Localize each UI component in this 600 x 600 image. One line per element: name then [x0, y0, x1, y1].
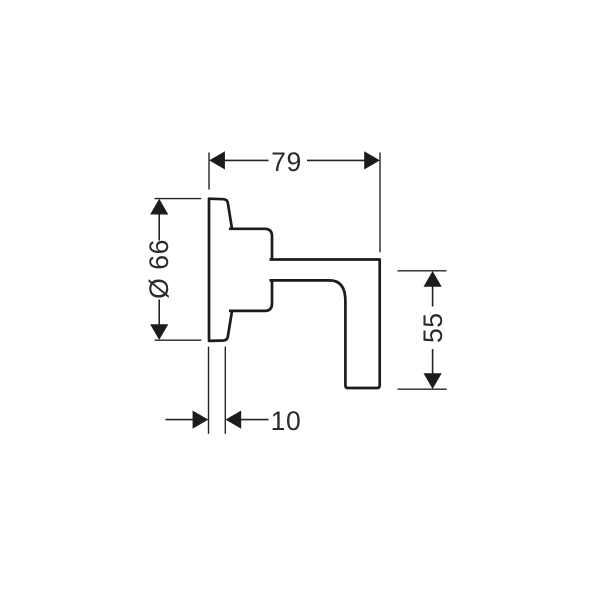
dim 79: dimension line left segment	[222, 159, 269, 161]
dim Ø66: top extension line	[155, 198, 202, 200]
dim 79: left arrowhead	[209, 151, 225, 169]
dim 79: right extension line	[379, 153, 381, 253]
svg-text:Ø 66: Ø 66	[144, 239, 174, 299]
dim 79: dimension line right segment	[307, 159, 366, 161]
dim 10: right tail line	[241, 419, 269, 421]
svg-text:10: 10	[271, 406, 302, 436]
dim 55: top extension line (valve axis)	[398, 270, 447, 272]
valve hub sleeve	[229, 229, 272, 311]
escutcheon plate (side profile)	[209, 199, 232, 341]
dim 10: left tail line	[166, 419, 194, 421]
dim 10: right extension line	[224, 347, 226, 434]
dim 55: dimension line upper segment	[432, 286, 434, 307]
dim Ø66: bottom extension line	[155, 339, 202, 341]
dim Ø66: dimension line lower segment	[158, 300, 160, 327]
dim 10: right arrowhead (pointing left)	[226, 411, 242, 429]
svg-text:79: 79	[271, 147, 302, 177]
dim 10: left extension line	[208, 347, 210, 434]
dim 55: bottom arrowhead	[424, 373, 442, 389]
dim 10: left arrowhead (pointing right)	[193, 411, 209, 429]
dim 55: bottom extension line	[398, 388, 447, 390]
dim Ø66: bottom arrowhead	[150, 324, 168, 340]
dim 79: left extension line	[208, 153, 210, 190]
dim Ø66: dimension line upper segment	[158, 213, 160, 241]
dim Ø66: top arrowhead	[150, 199, 168, 215]
dim 55: dimension line lower segment	[432, 349, 434, 374]
lever handle (L-shape)	[270, 260, 380, 389]
dim 55: top arrowhead	[424, 271, 442, 287]
svg-text:55: 55	[418, 312, 448, 343]
dim 79: right arrowhead	[364, 151, 380, 169]
